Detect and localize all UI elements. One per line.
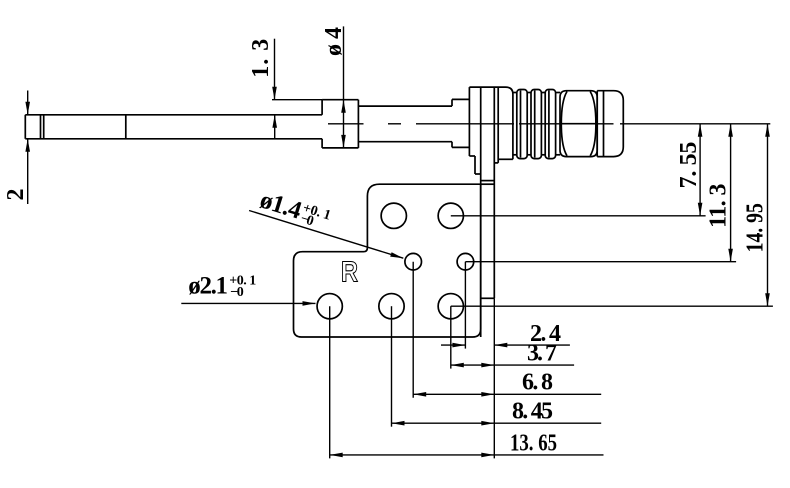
dim 11.3 line: [465, 124, 736, 262]
hole mid-left small: [405, 253, 422, 270]
arrows dim o4: [341, 100, 346, 113]
extension line of boss top: [272, 99, 322, 101]
dim 13.65 line: [330, 454, 604, 456]
crimp rib 2: [531, 90, 541, 159]
crimp groove 1: [513, 93, 517, 155]
flange plate outline: [294, 184, 481, 337]
dim 2.4 line: [441, 344, 570, 346]
arrows dim 2.4: [452, 343, 465, 348]
end cap: [597, 91, 623, 157]
crimp groove 2: [527, 93, 531, 155]
svg-text:11. 3: 11. 3: [706, 184, 732, 228]
svg-text:7. 55: 7. 55: [676, 142, 702, 189]
svg-text:R: R: [341, 257, 358, 289]
svg-text:1. 3: 1. 3: [248, 39, 274, 78]
centerline: [328, 123, 770, 125]
bracket washer: [469, 87, 480, 174]
arrows dim 14.95: [765, 124, 770, 137]
collar step: [452, 99, 469, 147]
arrows dim 11.3: [728, 124, 733, 137]
crimp groove 4: [556, 93, 561, 155]
svg-text:−0: −0: [230, 285, 244, 300]
hole top-left: [381, 203, 406, 228]
bracket right edge: [481, 87, 495, 298]
dim 2 lines: [27, 91, 29, 205]
svg-text:2: 2: [3, 189, 29, 201]
hole bottom-left: [317, 294, 342, 319]
dim o4 line: [343, 26, 345, 147]
body top edge with chamfer: [469, 87, 513, 159]
dim 8.45 line: [392, 422, 602, 424]
arrows dim 2: [25, 102, 30, 115]
dim 1.3 lines: [274, 39, 276, 139]
rod (center pin): [25, 115, 322, 139]
arrows dim 8.45: [392, 421, 405, 426]
hex nut: [560, 91, 597, 157]
svg-text:3. 7: 3. 7: [527, 340, 557, 366]
crimp rib 3: [545, 90, 555, 159]
label o1.4 with tolerance: [257, 186, 333, 233]
svg-text:13. 65: 13. 65: [510, 430, 557, 456]
arrows dim 6.8: [413, 392, 426, 397]
label o2.1 with tolerance: [188, 272, 256, 299]
dim 3.7 line: [451, 364, 574, 366]
dim 7.55 line: [451, 124, 706, 216]
arrows dim 3.7: [451, 363, 464, 368]
leader o1.4: [249, 211, 403, 259]
bracket left edge / plate right edge: [480, 87, 482, 337]
arrows dim 7.55: [698, 124, 703, 137]
hole mid-right small: [457, 253, 474, 270]
dim 6.8 line: [413, 393, 601, 395]
svg-text:ø1.4: ø1.4: [257, 186, 306, 224]
leader o2.1: [181, 302, 315, 304]
dim 14.95 line: [451, 124, 773, 306]
shaft: [358, 106, 452, 142]
arrows dim 1.3: [272, 87, 277, 100]
arrow leader o2.1: [303, 301, 316, 306]
svg-text:8. 45: 8. 45: [512, 398, 553, 424]
hole bottom-right: [438, 294, 463, 319]
body: [494, 87, 513, 163]
svg-text:ø2.1: ø2.1: [188, 272, 228, 299]
svg-text:6. 8: 6. 8: [522, 369, 553, 395]
hole bottom-middle: [379, 294, 404, 319]
svg-text:14. 95: 14. 95: [743, 203, 769, 252]
arrows dim 13.65: [330, 453, 343, 458]
bottom extension lines: [330, 262, 495, 459]
hole top-right: [438, 203, 463, 228]
crimp rib 1: [517, 90, 527, 159]
arrow leader o1.4: [390, 252, 403, 258]
crimp groove 3: [541, 93, 545, 155]
boss (o4 collar block): [322, 100, 358, 148]
ring: [597, 91, 603, 157]
